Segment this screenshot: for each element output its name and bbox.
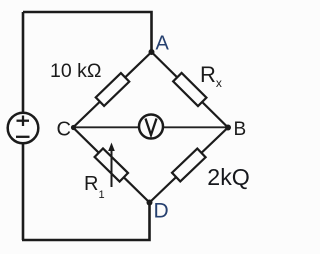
wire: bridge arm C to D (73, 128, 150, 203)
svg-text:A: A (156, 33, 170, 55)
node D (junction dot) (147, 200, 153, 206)
wire: bridge arm D to B (150, 128, 229, 203)
wiper arrow of variable resistor R1 (108, 143, 115, 188)
battery / DC source (8, 113, 39, 144)
resistor 10 kOhm (arm C-A) (96, 73, 130, 106)
wire: left side, top corner down to battery + terminal (22, 12, 25, 113)
wire: galvanometer branch C to B (through voltmeter) (73, 126, 228, 128)
resistor Rx (arm A-B) (173, 73, 206, 106)
node A (junction dot) (149, 49, 155, 55)
svg-text:B: B (234, 119, 247, 140)
svg-text:D: D (154, 200, 169, 223)
node C (junction dot) (71, 125, 76, 130)
voltmeter V (139, 115, 163, 139)
wire: node A up to top-left corner (top side of loop) (23, 12, 152, 52)
resistor R1 variable (arm C-D) (95, 148, 128, 181)
svg-text:2kQ: 2kQ (207, 164, 250, 190)
wire: bottom side of loop, then up to node D (22, 203, 150, 241)
wire: bridge arm A to B (152, 52, 229, 128)
resistor 2 kOhm (arm D-B) (172, 149, 206, 182)
wire: bridge arm C to A (73, 52, 152, 128)
svg-text:C: C (57, 119, 71, 141)
node B (junction dot) (225, 125, 231, 131)
wire: battery - terminal down to bottom-left corner (22, 143, 25, 240)
svg-text:10 kΩ: 10 kΩ (50, 60, 101, 82)
